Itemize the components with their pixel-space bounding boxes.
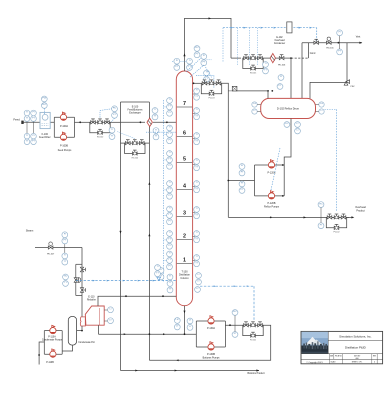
top of column instruments left pair: [172, 60, 192, 62]
filter F-100: [40, 112, 50, 128]
pump P-120B: [268, 191, 274, 199]
drum bottom outlet instruments: [284, 122, 290, 128]
svg-text:FIC: FIC: [319, 203, 323, 205]
svg-text:PIC: PIC: [195, 47, 199, 49]
pump P-130B: [208, 342, 214, 350]
overhead product arrow: [347, 216, 353, 218]
filter PDI instruments: [41, 96, 47, 102]
column right instrument pairs: [193, 93, 195, 95]
steam hand valve: [48, 246, 53, 249]
svg-text:E-102: E-102: [276, 37, 283, 39]
svg-text:2: 2: [183, 233, 186, 239]
bottoms product outlet line: [121, 370, 260, 372]
CW return drop: [316, 28, 318, 41]
title block photo: [302, 332, 329, 354]
svg-text:P-100A: P-100A: [60, 125, 68, 128]
E-100 feed/bottoms exchanger block: [121, 101, 150, 103]
svg-text:HV-100: HV-100: [97, 137, 103, 139]
svg-text:SHEET 1 OF 1: SHEET 1 OF 1: [352, 362, 363, 364]
svg-text:P-110B: P-110B: [46, 362, 54, 364]
svg-text:Bottoms Product: Bottoms Product: [248, 372, 265, 375]
svg-text:TIC: TIC: [64, 276, 68, 278]
pump P-110B: [50, 349, 56, 357]
svg-text:PDT: PDT: [42, 104, 47, 106]
svg-text:D-102 Reflux Drum: D-102 Reflux Drum: [277, 107, 299, 111]
title block frame: [301, 331, 383, 363]
bottom outlet instruments: [174, 318, 180, 324]
svg-text:LIC: LIC: [176, 319, 180, 321]
overhead vapor line: [185, 18, 232, 71]
svg-text:REV: REV: [373, 356, 376, 358]
reboiler E-110 kettle: [85, 306, 104, 325]
svg-text:Feed: Feed: [13, 118, 20, 122]
vent riser from drum: [301, 43, 303, 99]
svg-text:LG: LG: [253, 103, 256, 105]
svg-text:4: 4: [183, 183, 186, 189]
svg-text:P-100B: P-100B: [60, 145, 68, 148]
valve station bottoms HV: [124, 140, 145, 160]
svg-text:Product: Product: [356, 210, 365, 213]
svg-text:SIZE: SIZE: [330, 355, 333, 357]
inline strainer box: [232, 86, 237, 91]
svg-text:FV-102: FV-102: [333, 232, 339, 234]
svg-text:Condenser: Condenser: [274, 42, 285, 45]
pump P-130A: [208, 316, 214, 324]
condensate pumps loop: [43, 331, 45, 355]
feed inlet line: [22, 121, 54, 123]
svg-text:FIC: FIC: [233, 311, 237, 313]
column left signal bus: [163, 100, 165, 281]
bottoms pump discharge: [225, 324, 243, 326]
pump P-100B: [60, 132, 66, 140]
svg-text:Feed Pumps: Feed Pumps: [58, 149, 72, 152]
svg-text:Column: Column: [180, 277, 189, 280]
valve HV-106: [279, 55, 284, 60]
vent valve HV-101: [327, 41, 332, 44]
distillate product line: [228, 216, 349, 218]
column bottom level signal line: [200, 285, 254, 287]
condenser outlet to drum: [290, 58, 292, 98]
svg-text:HV-101: HV-101: [326, 48, 334, 50]
top signal diagonals: [186, 58, 201, 72]
svg-text:DWG NO: DWG NO: [354, 355, 361, 357]
svg-text:P-130A: P-130A: [207, 327, 215, 330]
svg-text:HV-105: HV-105: [250, 72, 256, 74]
pump P-120A: [268, 160, 274, 168]
reflux instruments on riser: [239, 164, 245, 170]
reboiler TIC signal line: [76, 280, 177, 282]
feed line through exchanger: [121, 121, 146, 123]
valve station overhead product FV: [326, 214, 347, 234]
condenser E-102 diamond: [270, 54, 275, 63]
svg-text:Condensate Pumps: Condensate Pumps: [42, 339, 63, 342]
svg-text:Reboiler: Reboiler: [87, 299, 96, 302]
svg-text:3: 3: [183, 210, 186, 216]
exchanger diamond E-100: [147, 118, 152, 126]
valve station condenser CW: [243, 55, 264, 75]
column bottom outlet: [184, 306, 186, 334]
title block text cells: [327, 331, 329, 353]
extra left instruments: [158, 268, 164, 274]
svg-text:HV-107: HV-107: [47, 254, 55, 256]
drum level gauge right: [319, 102, 324, 107]
product instruments: [318, 202, 324, 208]
feed line instruments TI/PI: [26, 116, 28, 122]
svg-text:Reflux Pumps: Reflux Pumps: [264, 205, 280, 208]
vent valve 1: [314, 39, 319, 44]
reboiler drain to bottoms header: [98, 325, 100, 334]
vent instruments: [337, 30, 343, 36]
svg-text:FSCM NO: FSCM NO: [335, 355, 343, 357]
column bottom right instruments: [196, 273, 202, 279]
svg-text:LG: LG: [320, 103, 323, 105]
svg-text:LIC: LIC: [285, 123, 289, 125]
svg-text:Condensate Pot: Condensate Pot: [78, 341, 95, 344]
reflux return line to column: [193, 82, 201, 84]
utility break box on CW header: [287, 22, 292, 33]
product flow signal: [325, 108, 337, 110]
signal drop to bottoms valve: [253, 286, 255, 320]
steam control valve assembly: [75, 264, 77, 295]
svg-text:HV-106: HV-106: [278, 64, 286, 66]
svg-text:HV-104: HV-104: [132, 157, 138, 159]
steam instruments: [64, 238, 66, 248]
svg-text:Overhead: Overhead: [274, 39, 285, 42]
bottoms header line: [99, 333, 197, 335]
feed line to column: [153, 121, 176, 123]
condensate discharge: [39, 342, 44, 365]
reboiler condensate drain to pot: [77, 326, 82, 331]
valve station bottoms product FV: [243, 322, 264, 342]
svg-text:FV-103: FV-103: [208, 98, 214, 100]
vent line: [302, 42, 362, 44]
svg-text:0: 0: [374, 362, 375, 364]
svg-text:7: 7: [183, 101, 186, 107]
svg-text:Exchanger: Exchanger: [129, 112, 141, 115]
svg-text:Cond: Cond: [310, 53, 316, 55]
column left instrument clusters: [167, 98, 173, 104]
valve station reflux FV: [201, 80, 222, 100]
cooling water header: [223, 27, 317, 29]
column bottom left instruments: [167, 274, 173, 280]
feed flow controller instruments: [112, 106, 118, 112]
reflux pump suction header: [228, 180, 254, 182]
exchanger station instruments: [109, 127, 115, 133]
steam CV positioner instruments: [63, 274, 69, 280]
svg-text:Steam: Steam: [26, 228, 34, 232]
pot outlet: [62, 345, 72, 351]
svg-text:PSV: PSV: [350, 86, 355, 88]
PSV line: [310, 43, 347, 99]
reflux drum D-102: [261, 98, 316, 118]
svg-text:5: 5: [183, 156, 186, 162]
reflux pumps loop: [254, 165, 256, 196]
valve station feed FV-100: [90, 119, 111, 139]
distillation column T-100 shell: [176, 71, 192, 306]
top of column instruments right: [194, 46, 200, 52]
condenser instruments: [263, 62, 269, 68]
svg-text:FV-101: FV-101: [250, 340, 256, 342]
condensate pot: [68, 316, 76, 345]
exchanger outlet instruments: [152, 108, 158, 114]
drum top inlet from bypass: [267, 91, 269, 99]
pump P-100A: [60, 112, 66, 120]
condensate return stub Cond: [291, 57, 309, 59]
bottoms pumps loop: [195, 321, 197, 347]
svg-text:© Copyright 2021: © Copyright 2021: [306, 361, 323, 364]
svg-text:Distillation P&ID: Distillation P&ID: [345, 346, 366, 350]
svg-text:Bottoms Pumps: Bottoms Pumps: [203, 356, 221, 359]
drum outlet to pumps: [284, 119, 291, 166]
svg-text:FIC: FIC: [113, 108, 117, 110]
drum level gauge left: [252, 102, 257, 107]
bottoms product to exchanger: [149, 325, 270, 360]
feed pumps loop: [53, 117, 55, 137]
svg-text:400: 400: [355, 358, 358, 360]
signal funnel symbol: [157, 277, 161, 280]
level signal diagonal: [271, 148, 280, 190]
steam line down to reboiler: [81, 248, 83, 317]
pump P-110A: [50, 325, 56, 333]
PSV relief valve: [344, 82, 348, 86]
svg-text:6: 6: [183, 130, 186, 136]
svg-text:1: 1: [183, 257, 186, 263]
svg-text:P-110A: P-110A: [48, 335, 56, 338]
svg-text:Simulation Solutions, Inc.: Simulation Solutions, Inc.: [339, 335, 372, 339]
svg-text:Vent: Vent: [356, 36, 361, 39]
bottoms discharge instruments: [232, 310, 238, 316]
reboiler instruments: [108, 307, 114, 313]
column tray lines: [177, 106, 192, 108]
svg-text:PDI: PDI: [43, 98, 47, 100]
reboiler vapor return to column: [98, 296, 176, 306]
svg-text:Feed Filter: Feed Filter: [39, 136, 51, 139]
